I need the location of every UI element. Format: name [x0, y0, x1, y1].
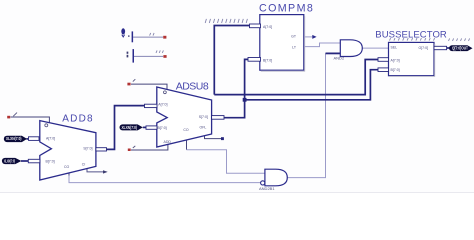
pin A[7:0] ADD8 — [29, 137, 40, 141]
wire VCC dangling — [134, 55, 163, 57]
svg-text:CO: CO — [64, 165, 70, 169]
pin B[7:0] ADD8 — [28, 159, 40, 163]
pin S[7:0] ADD8 — [96, 148, 107, 151]
svg-text:GT: GT — [291, 34, 297, 38]
bus ADD8 S to ADSU8 A — [107, 106, 145, 150]
pin labels ADSU8 — [158, 103, 208, 144]
svg-text:BUSSELECTOR: BUSSELECTOR — [375, 29, 447, 40]
svg-text:CO: CO — [183, 128, 189, 132]
svg-text:CI: CI — [82, 162, 86, 166]
svg-text:ADSU8: ADSU8 — [176, 80, 209, 92]
comparator COMPM8 — [260, 15, 305, 72]
svg-text:OFL: OFL — [200, 126, 207, 130]
svg-text:AND2: AND2 — [334, 56, 345, 61]
svg-text:A[7:0]: A[7:0] — [391, 59, 400, 63]
pin B[7:0] COMPM8 — [248, 58, 261, 62]
svg-text:O[7:0]: O[7:0] — [418, 46, 428, 50]
pin labels ADD8 — [46, 136, 93, 169]
svg-text:ADD8: ADD8 — [62, 114, 93, 125]
node red end ADSU8 top — [127, 83, 130, 86]
wire AND2 bottom input stub — [326, 52, 341, 54]
connector input tag3 — [120, 124, 143, 130]
power VCC symbol — [127, 49, 134, 63]
bus vertical ADSU8 S to COMPM8 B — [224, 59, 249, 117]
wire ADSU8 ADD pin dangling — [131, 144, 168, 150]
ground symbol — [121, 28, 133, 42]
svg-text:XLXN(7:0): XLXN(7:0) — [4, 158, 15, 163]
node red end ADSU8 ADD — [128, 149, 131, 152]
svg-text:XLXN(7:0): XLXN(7:0) — [122, 125, 138, 130]
svg-text:ADD: ADD — [164, 140, 172, 144]
node OFL end dot — [221, 137, 224, 140]
svg-text:AND2B1: AND2B1 — [259, 186, 275, 191]
bus to COMPM8 A — [214, 26, 249, 95]
wire AND2 output to BUSSELECTOR SEL — [362, 47, 388, 49]
bus to BUSSELECTOR B — [245, 70, 378, 100]
svg-text:B[7:0]: B[7:0] — [391, 68, 400, 72]
svg-text:B[7:0]: B[7:0] — [46, 159, 55, 163]
node name ticks over output tag — [449, 38, 470, 41]
wire LT to AND2 input — [304, 43, 341, 47]
svg-text:SEL: SEL — [391, 45, 398, 49]
svg-text:B[7:0]: B[7:0] — [263, 58, 272, 62]
svg-text:A[7:0]: A[7:0] — [263, 25, 272, 29]
svg-text:XLXN(7:0): XLXN(7:0) — [6, 136, 22, 141]
bottom gray strip — [0, 192, 474, 193]
bus tag1 to ADD8 A — [27, 138, 30, 140]
pin O[7:0] BUSSELECTOR — [434, 46, 447, 49]
adder ADD8 — [40, 121, 96, 180]
bus long horizontal to BUSSELECTOR A — [214, 60, 378, 95]
pin B[7:0] BUSSELECTOR — [378, 68, 389, 72]
node name ticks over COMPM8 bus — [205, 19, 247, 23]
pin GT arrow — [312, 35, 316, 39]
bus tag3 to ADSU8 B — [143, 126, 147, 128]
adder-subtractor ADSU8 — [157, 87, 212, 147]
pin labels BUSSELECTOR — [391, 45, 429, 72]
wire ground dangling — [133, 36, 163, 38]
svg-text:S[7:0]: S[7:0] — [199, 115, 208, 119]
pin A[7:0] COMPM8 — [250, 24, 261, 28]
svg-text:A[7:0]: A[7:0] — [158, 103, 167, 107]
node junction — [243, 98, 247, 102]
connector input tag2 — [2, 158, 22, 164]
connector output tag — [449, 45, 472, 51]
wire GT dangling from COMPM8 — [304, 36, 313, 38]
gate AND2 — [334, 40, 363, 61]
pin S[7:0] ADSU8 — [212, 116, 224, 120]
connector input tag1 — [4, 136, 27, 142]
wire ADD8 CI top dangling — [11, 117, 50, 123]
bus tag2 to ADD8 B — [21, 160, 29, 162]
bus BUSSELECTOR O to output tag — [446, 47, 452, 49]
svg-text:S[7:0]: S[7:0] — [83, 147, 92, 151]
svg-text:B[7:0]: B[7:0] — [158, 126, 167, 130]
svg-text:Q[7:0]OUT: Q[7:0]OUT — [452, 46, 468, 51]
mux BUSSELECTOR — [389, 42, 435, 76]
wire ADD8 CI arrow — [87, 169, 103, 172]
pin B[7:0] ADSU8 — [146, 126, 157, 129]
node red end ADD8 top — [7, 116, 10, 119]
pin labels COMPM8 — [263, 25, 297, 62]
wire ADD8 CO to AND2B1 inverted input — [68, 170, 70, 176]
wire OFL dangling — [205, 135, 223, 139]
pin A[7:0] ADSU8 — [145, 104, 158, 107]
wire ADSU8 CI top dangling — [131, 84, 167, 90]
pin A[7:0] BUSSELECTOR — [378, 58, 389, 62]
svg-text:A[7:0]: A[7:0] — [46, 136, 55, 140]
wire ADSU8 CO to AND2B1 top input — [186, 140, 188, 150]
wire AND2B1 output up to AND2 bottom input — [287, 53, 325, 177]
gate AND2B1 — [259, 169, 287, 191]
node name ticks over BUSSELECTOR — [390, 38, 435, 41]
